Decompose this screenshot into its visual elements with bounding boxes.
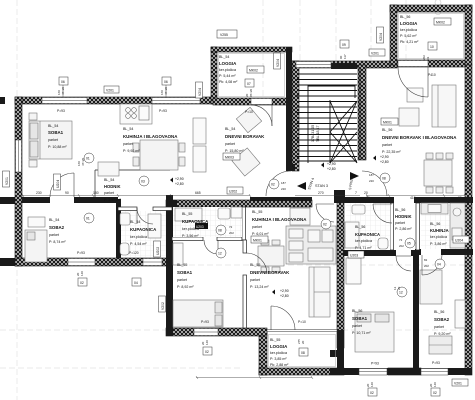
room BL56 SOBA1 [352,309,371,335]
svg-text:BL_54: BL_54 [225,127,235,131]
svg-text:SOBA1: SOBA1 [352,316,368,321]
room BL55 SOBA1 [177,263,194,289]
kitchen counter BL56 [450,203,465,248]
svg-text:25: 25 [458,196,462,200]
svg-text:09: 09 [342,43,346,47]
svg-text:parket: parket [49,233,59,237]
svg-text:P: 22,35 m²: P: 22,35 m² [382,150,401,154]
window BL56 soba1 bottom [359,369,387,376]
svg-text:Pk: 4,08 m²: Pk: 4,08 m² [219,80,238,84]
wall loggia55 right (solid) [337,330,344,375]
svg-text:SOBA2: SOBA2 [49,225,65,230]
svg-text:V201: V201 [106,89,114,93]
wall stair left [292,61,299,171]
svg-text:BL_56: BL_56 [355,225,365,229]
label box 09 stair [340,40,349,48]
wall BL55 kupaonica top [166,200,312,207]
svg-text:95=20: 95=20 [249,88,253,97]
bed soba2-54 [25,230,47,262]
wall BL55 kupaonica right [242,207,246,240]
svg-text:665: 665 [195,191,201,195]
thin interior walls [95,67,420,328]
room BL56 LOGGIA [400,15,419,44]
svg-text:HODNIK: HODNIK [104,184,121,189]
label box 10 loggia56 [428,42,437,50]
svg-text:P: 3,86 m²: P: 3,86 m² [430,242,447,246]
room BL54 DNEVNI BORAVAK [225,127,265,153]
svg-text:P: 8,92 m²: P: 8,92 m² [177,285,194,289]
bed soba1-54 [29,121,72,159]
wall BL56 bottom window part [388,368,421,375]
wall loggia56 right [465,5,472,65]
svg-text:02: 02 [271,183,275,187]
svg-text:+2,80: +2,80 [280,294,289,298]
svg-text:BL_55: BL_55 [252,210,262,214]
bed soba1-56 [355,312,394,352]
wall BL56 right [465,65,472,375]
room BL54 KUHINJA [123,127,178,153]
svg-text:parket: parket [252,225,262,229]
room BL56 SOBA2 [434,310,451,336]
svg-text:02: 02 [323,223,327,227]
label V202 vert soba1-55 [159,296,166,312]
basin kupaonica56 [352,205,365,214]
level mark dnevni54 [170,177,184,186]
wall BL55 kup corner cap [166,200,177,207]
label V201 bottom right [452,379,468,386]
svg-text:47=20: 47=20 [164,86,168,95]
label box 08 loggia55 [299,348,308,356]
wall BL55 soba1/dnevni divider [243,240,247,253]
label box 02 soba2-56 [431,388,440,396]
room BL56 DNEVNI [382,128,457,154]
window soba1-55 bottom [194,329,218,336]
svg-text:KUHINJA I BLAGOVAONA: KUHINJA I BLAGOVAONA [123,134,178,139]
cabinet hodnik54 [98,162,119,176]
svg-text:parket: parket [177,278,187,282]
circle 03 kuhinja54 [139,176,149,186]
landing arrow left [297,182,306,190]
bed soba1-55 [173,300,223,327]
svg-text:parket: parket [352,324,362,328]
label U202 kuhinja54 [227,187,243,194]
circle 01 soba1-54 [84,153,94,163]
grid bubbles top [435,0,441,15]
label box 04 kupaonica54 [132,278,141,286]
door kupaonica55 [204,240,218,254]
svg-text:U203: U203 [350,254,358,258]
svg-text:MK02: MK02 [249,69,258,73]
loggia55 top boundary [267,330,337,332]
svg-text:KUPAONICA: KUPAONICA [355,232,380,237]
wall stub top left corner [0,97,5,104]
svg-text:BL_54: BL_54 [130,220,140,224]
door kupaonica56 [373,204,392,223]
room BL56 HODNIK [395,208,412,231]
svg-text:BL_55: BL_55 [250,263,260,267]
wall BL56 kupaonica bottom [343,250,396,256]
svg-text:08: 08 [301,351,305,355]
window kuhinja-54 top [152,98,200,104]
sofa BL56 [432,85,456,127]
svg-text:+2,90: +2,90 [327,162,336,166]
wall BL54 top [15,97,213,104]
svg-text:parket: parket [123,142,133,146]
svg-text:93: 93 [426,56,430,60]
svg-text:Pk: 4,21 m²: Pk: 4,21 m² [400,40,419,44]
circle 05 hodnik56 [405,238,415,248]
svg-text:parket: parket [395,221,405,225]
svg-text:P: 13,24 m²: P: 13,24 m² [250,285,269,289]
svg-text:LOGGIA: LOGGIA [400,21,418,26]
floor loggia55 inner line [269,335,336,367]
svg-text:140: 140 [205,340,209,345]
label U203 kupaonica56 [348,251,364,258]
svg-text:P: 5,44 m²: P: 5,44 m² [219,74,236,78]
svg-text:7: 7 [355,191,357,195]
svg-text:08: 08 [382,177,386,181]
svg-text:P=93: P=93 [77,251,85,255]
svg-text:140: 140 [80,271,84,276]
wall loggia55 left [259,330,267,375]
svg-text:TBL 18,17: TBL 18,17 [316,126,320,142]
svg-text:140: 140 [370,382,374,387]
svg-text:03: 03 [141,180,145,184]
circle 04 soba2-56 [435,259,445,269]
svg-text:02: 02 [80,281,84,285]
svg-text:BL_56: BL_56 [434,310,444,314]
small paired door dims [57,54,437,387]
svg-text:02: 02 [205,350,209,354]
wall stairwell right thin [359,67,361,160]
wall BL54 left [15,97,22,266]
svg-text:P: 6,01 m²: P: 6,01 m² [252,232,269,236]
svg-text:05: 05 [407,242,411,246]
svg-text:180: 180 [93,191,99,195]
label U204 vert soba1-54 [54,174,61,190]
nightstand soba1-54 b [29,160,37,167]
stove circles BL54 [126,106,149,120]
label V204 vert loggia54 [274,53,281,69]
room BL55 KUPAONICA [182,212,209,238]
wall BL56 kuhinja left [416,203,420,250]
label MK01 dnevni54 [223,153,240,160]
svg-text:V201: V201 [454,382,462,386]
label V201 stair [369,49,385,56]
dining table BL54 [140,140,178,170]
staircase treads [297,74,357,161]
room BL54 KUPAONICA [130,220,157,246]
svg-text:140: 140 [433,382,437,387]
svg-text:82: 82 [424,258,428,262]
wall loggia54 right (solid) [286,47,292,171]
svg-text:+2,80: +2,80 [327,167,336,171]
armchair BL56 [399,108,419,126]
armchair BL54 dnevni (rotated) [236,107,261,132]
svg-text:parket: parket [225,142,235,146]
svg-text:P: 4,71 m²: P: 4,71 m² [355,246,372,250]
svg-text:P: 5,62 m²: P: 5,62 m² [400,34,417,38]
wall BL55 left (solid) [166,195,173,336]
label U202 vert kupaonica54 [154,241,161,257]
wall loggia54 bottom / dnevni54 top [213,98,298,105]
svg-text:parket: parket [434,325,444,329]
svg-text:202: 202 [424,264,429,268]
svg-text:DNEVNI BORAVAK: DNEVNI BORAVAK [225,134,265,139]
door loggia56 [398,67,428,97]
room BL55 KUHINJA [252,210,307,236]
svg-text:BL_55: BL_55 [270,338,280,342]
stair cross diagonals [330,101,357,163]
svg-text:47=20: 47=20 [81,157,85,166]
label box 06 right [162,77,171,85]
svg-text:BL_54: BL_54 [49,218,59,222]
svg-text:ker.pločica: ker.pločica [400,28,417,32]
desk soba2-56 [455,300,465,328]
svg-text:KUHINJA I BLAGOVAONA: KUHINJA I BLAGOVAONA [252,217,307,222]
dim line top left 06 [62,85,64,97]
label MK02 loggia56 [434,18,451,25]
svg-text:220: 220 [281,187,286,191]
svg-text:P=93: P=93 [159,109,167,113]
stair walk outline [308,86,355,163]
cabinet BL54 [193,118,206,144]
tub kupaonica54 [148,214,161,238]
wall soba1-55 bottom [166,328,267,336]
svg-text:KUHINJA: KUHINJA [430,228,449,233]
wall loggia56 left [390,5,397,65]
floor kupaonica56 [346,203,390,250]
window soba2-54 bottom [68,259,95,266]
wall stair top [290,61,397,68]
svg-text:MK03: MK03 [225,156,234,160]
wall stair right / BL56 living left [358,65,366,160]
wall BL55 kuhinja top thin [250,197,312,201]
svg-text:P: 3,85 m²: P: 3,85 m² [270,357,287,361]
svg-text:P: 10,88 m²: P: 10,88 m² [48,145,67,149]
svg-text:SOBA1: SOBA1 [48,130,64,135]
svg-text:V204: V204 [198,88,202,96]
wall BL55-BL56 divider [337,200,344,348]
svg-text:01: 01 [86,157,90,161]
wall BL55 kupaonica bottom [172,237,203,241]
svg-text:17Bx31,05: 17Bx31,05 [311,125,315,142]
dim line BL56 living bottom [366,195,465,197]
svg-text:P: 4,54 m²: P: 4,54 m² [130,242,147,246]
wall BL56 soba1 left corner [330,350,344,357]
door entry BL56 [362,171,387,196]
door entry BL54 [266,171,291,196]
svg-text:P=10: P=10 [298,320,306,324]
dim line BL54 mid [22,195,250,197]
wall BL54 soba1/soba2 divider [22,197,50,203]
nightstand soba1-54 a [29,113,37,120]
label box 07 loggia54 [245,79,254,87]
label box 06 left [59,77,68,85]
wardrobe soba1-56 [346,258,361,284]
wall BL56 living bottom [343,197,394,203]
window BL56 soba2 bottom [421,369,448,376]
svg-text:parket: parket [104,191,114,195]
svg-text:20: 20 [301,340,305,344]
circle 08 entry56 [380,173,390,183]
svg-text:HODNIK: HODNIK [395,214,412,219]
svg-text:BL_54: BL_54 [104,178,114,182]
wc kupaonica54 [120,243,129,255]
svg-text:BL_54: BL_54 [123,127,133,131]
svg-text:270: 270 [318,191,324,195]
kitchen counter BL54 [120,104,152,124]
svg-text:U204: U204 [56,180,60,188]
dim line bottom loggia55 [196,377,312,379]
wall BL56 kupaonica/hodnik divider [390,203,394,250]
svg-text:SOBA1: SOBA1 [177,270,193,275]
wall loggia56 top [390,5,472,12]
svg-text:V204: V204 [379,33,383,41]
level mark dnevni56 [373,155,389,164]
svg-text:ker.pločica: ker.pločica [219,68,236,72]
svg-text:V204: V204 [276,59,280,67]
label U203 kupaonica55 (inverted) [195,223,208,229]
room BL55 LOGGIA [270,338,289,367]
dresser soba2-54 [28,217,45,227]
svg-text:MK02: MK02 [436,21,445,25]
svg-text:parket: parket [382,143,392,147]
wall stair window sill [331,63,357,69]
svg-text:ker.pločica: ker.pločica [130,235,147,239]
svg-text:P: 10,71 m²: P: 10,71 m² [352,331,371,335]
svg-text:+2,90: +2,90 [175,177,184,181]
svg-text:02: 02 [433,391,437,395]
svg-text:01: 01 [86,217,90,221]
svg-text:06: 06 [164,80,168,84]
svg-text:DNEVNI BORAVAK: DNEVNI BORAVAK [250,270,290,275]
tub kupaonica55 [175,208,202,221]
svg-text:U202: U202 [156,247,160,255]
svg-text:04: 04 [134,281,138,285]
level mark stair [321,162,336,171]
svg-text:LOGGIA: LOGGIA [270,344,288,349]
level mark dnevni55 [272,289,289,298]
bed soba2-56 [420,270,442,304]
svg-text:P410: P410 [428,73,436,77]
svg-text:+2,90: +2,90 [380,155,389,159]
door loggia56 opening [398,61,428,67]
wall loggia54 left [211,47,217,104]
washer kupaonica55 [231,207,242,218]
wall BL54 bottom [15,258,172,266]
svg-text:parket: parket [250,278,260,282]
floor kupaonica55 [173,207,242,237]
door loggia55 [271,306,295,330]
floor kupaonica54 [121,211,166,257]
sofa BL55 [309,267,330,317]
svg-text:P: 3,93 m²: P: 3,93 m² [104,198,121,202]
basin kupaonica54 [120,213,130,225]
basin kupaonica55 [218,208,230,219]
wall BL54 soba2/kupaonica divider [116,199,121,258]
wall loggia55 bottom [259,368,344,375]
svg-text:P: 15,80 m²: P: 15,80 m² [225,149,244,153]
room BL56 KUHINJA [430,222,449,246]
svg-text:P=93: P=93 [201,320,209,324]
svg-text:P=93: P=93 [432,361,440,365]
svg-text:220: 220 [369,179,374,183]
svg-text:parket: parket [48,138,58,142]
wall BL56 bottom [330,368,472,375]
svg-text:P: 8,74 m²: P: 8,74 m² [49,240,66,244]
sofa table BL54 dnevni (rotated) [232,148,260,176]
svg-text:U203: U203 [196,225,204,229]
svg-text:P: 9,92 m²: P: 9,92 m² [123,149,140,153]
wall BL56 kuhinja bottom [415,249,421,255]
room BL54 SOBA2 [49,218,66,244]
svg-text:LOGGIA: LOGGIA [219,61,237,66]
svg-text:72: 72 [399,238,403,242]
door soba1-56 [396,256,411,271]
room BL54 LOGGIA [219,55,238,84]
label box 02 soba2-54 [78,278,87,286]
wall BL56 soba divider [413,255,419,368]
svg-text:P=10: P=10 [245,110,253,114]
svg-text:10: 10 [430,45,434,49]
svg-text:V255: V255 [220,33,228,37]
svg-text:ker.pločica: ker.pločica [430,235,447,239]
svg-text:P: 3,56 m²: P: 3,56 m² [182,234,199,238]
label box 02 soba1-55 [203,347,212,355]
circle 01 soba2-54 [84,213,94,223]
svg-text:P: 2,86 m²: P: 2,86 m² [395,227,412,231]
room BL56 KUPAONICA [355,225,380,250]
svg-text:MK01: MK01 [253,239,262,243]
door entry BL55 [316,204,334,222]
wall stub left edge bottom [0,258,15,266]
room BL55 DNEVNI BORAVAK [250,263,290,289]
svg-text:V202: V202 [161,302,165,310]
svg-text:BL_54: BL_54 [48,124,58,128]
label V204 vert left [196,82,203,98]
svg-text:187: 187 [281,181,286,185]
svg-text:KUPAONICA: KUPAONICA [130,227,157,232]
label MK01 kuhinja55 [251,236,268,243]
svg-text:12: 12 [218,252,222,256]
label U204 kuhinja56 [453,236,469,243]
svg-text:BL_54: BL_54 [219,55,229,59]
svg-text:02: 02 [370,391,374,395]
svg-text:ker.pločica: ker.pločica [270,351,287,355]
label V201 top-left [104,86,119,93]
wall loggia54 top [211,47,292,52]
svg-text:20: 20 [364,191,368,195]
svg-text:202: 202 [229,231,234,235]
svg-text:V201: V201 [371,52,379,56]
label V201 left edge vert [3,171,10,187]
label box 02 soba1-56 [368,388,377,396]
door loggia54 [251,105,272,126]
dining table BL56 [424,160,452,186]
svg-text:BL_56: BL_56 [382,128,392,132]
circle 08 kupaonica55 [216,225,226,235]
wc kupaonica56 [378,238,388,249]
svg-text:P: 9,20 m²: P: 9,20 m² [434,332,451,336]
svg-text:P=93: P=93 [57,109,65,113]
svg-text:47=20: 47=20 [61,86,65,95]
landing arrow right [350,172,359,180]
wall loggia56 bottom [397,60,465,67]
dining table BL55 [258,246,284,266]
stair center line [329,100,331,163]
svg-text:117: 117 [343,54,347,59]
